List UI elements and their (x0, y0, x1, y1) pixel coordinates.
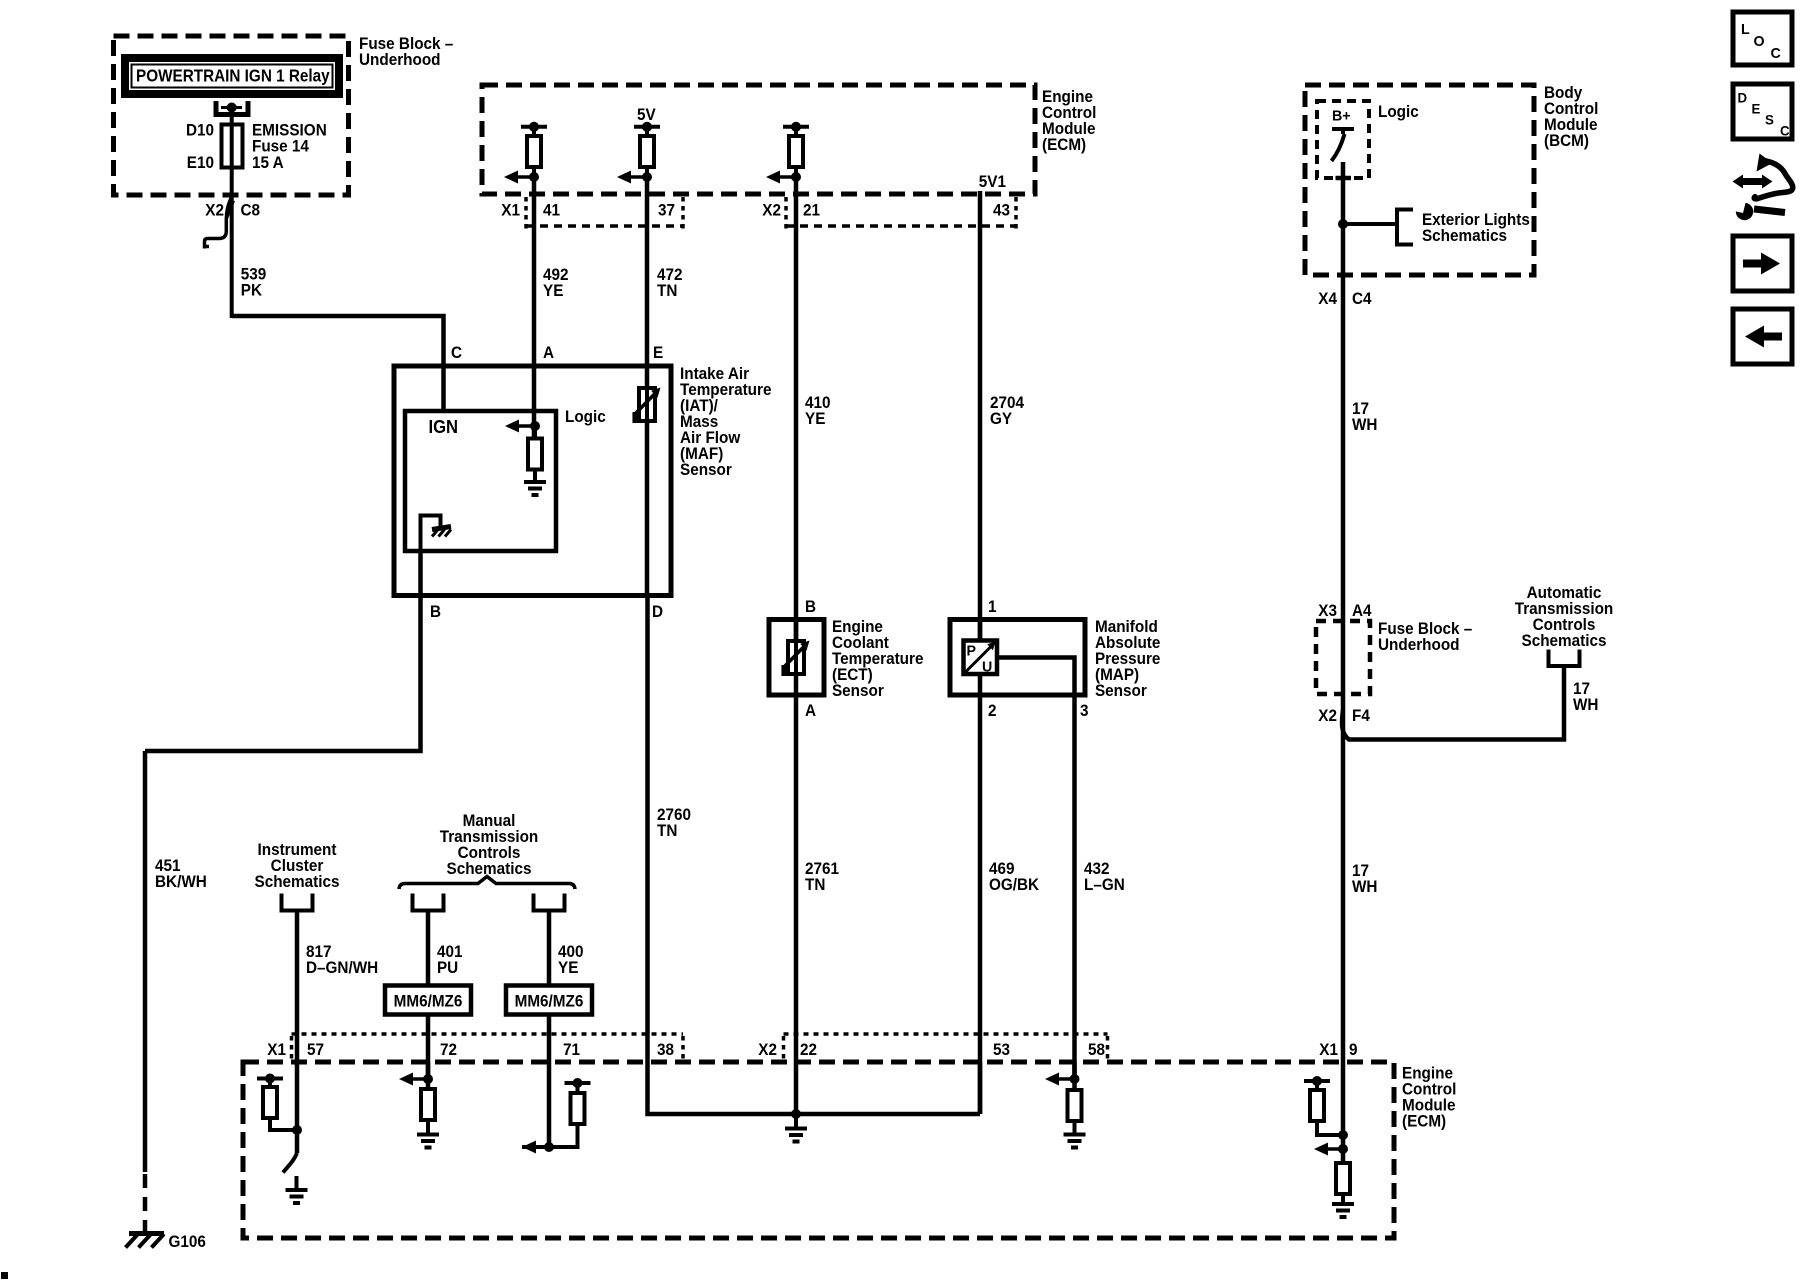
svg-text:X2: X2 (758, 1040, 777, 1059)
wire 401 PU to MM6 box (426, 911, 431, 987)
icon forward arrow box (1733, 236, 1792, 291)
svg-text:YE: YE (805, 409, 826, 428)
svg-text:P: P (967, 643, 977, 659)
svg-text:Sensor: Sensor (832, 681, 884, 700)
ground at pin 57 (286, 1176, 308, 1203)
svg-text:A: A (543, 343, 554, 362)
brace manual transmission (399, 877, 575, 890)
label 492 YE (543, 265, 569, 300)
wire 451 BK WH down to G106 (143, 751, 148, 1172)
ground inside logic box (524, 469, 546, 495)
svg-text:TN: TN (805, 875, 825, 894)
ECM bottom connector X1 group (267, 1034, 683, 1060)
wire through MAP (978, 619, 983, 695)
svg-text:43: 43 (993, 201, 1010, 220)
bracket 401 (413, 894, 444, 911)
svg-text:57: 57 (307, 1040, 324, 1059)
svg-text:Schematics: Schematics (255, 872, 340, 891)
svg-text:C4: C4 (1352, 289, 1372, 308)
svg-text:38: 38 (657, 1040, 674, 1059)
svg-text:MM6/MZ6: MM6/MZ6 (394, 992, 463, 1011)
label Fuse Block - Underhood (359, 34, 453, 69)
svg-text:POWERTRAIN IGN 1 Relay: POWERTRAIN IGN 1 Relay (136, 65, 330, 85)
automatic transmission bracket (1549, 650, 1580, 667)
relay label box POWERTRAIN IGN 1 Relay (121, 54, 343, 98)
svg-text:37: 37 (658, 201, 675, 220)
svg-text:15 A: 15 A (252, 153, 284, 172)
pin 58 resistor to ground (1064, 1090, 1086, 1148)
bracket 400 (534, 894, 565, 911)
label 400 YE (558, 942, 584, 977)
ground at pin 22 bus (785, 1114, 807, 1142)
svg-text:X1: X1 (267, 1040, 286, 1059)
wire through right fuse block (1341, 621, 1346, 694)
svg-text:Sensor: Sensor (680, 460, 732, 479)
svg-text:X2: X2 (1318, 706, 1337, 725)
terminal hook at C8 (205, 197, 232, 249)
svg-text:O: O (1754, 34, 1765, 50)
label 2761 TN (805, 859, 839, 894)
svg-text:Logic: Logic (565, 407, 606, 426)
pin 57 switch to ground (283, 1153, 297, 1173)
wire 2761 TN ECT pin A to ECM pin 22 (794, 695, 799, 1114)
wire 2760 TN MAF pin D to ECM pin 38 (645, 595, 650, 1062)
svg-text:22: 22 (800, 1040, 817, 1059)
svg-text:B+: B+ (1332, 108, 1351, 124)
svg-text:72: 72 (440, 1040, 457, 1059)
svg-text:5V1: 5V1 (979, 172, 1006, 191)
svg-text:WH: WH (1573, 695, 1598, 714)
svg-text:BK/WH: BK/WH (155, 872, 207, 891)
svg-text:X4: X4 (1318, 289, 1337, 308)
svg-text:53: 53 (993, 1040, 1010, 1059)
svg-text:E: E (1751, 101, 1760, 116)
page arrow at pin 21 (766, 171, 801, 184)
svg-text:5V: 5V (637, 105, 656, 124)
svg-text:S: S (1765, 112, 1774, 127)
label Exterior Lights Schematics (1422, 210, 1530, 245)
wire 492 YE pin41 to MAF pin A (532, 177, 537, 440)
label 17 WH branch (1573, 679, 1598, 714)
ECM top connector X2 group (762, 197, 1016, 229)
label 401 PU (437, 942, 463, 977)
fuse F14 EMISSION 15A (186, 121, 327, 172)
wire 410 YE pin21 to ECT pin B (794, 177, 799, 642)
icon tools arrows (1733, 154, 1793, 221)
connector X2 C8 labels (205, 201, 260, 220)
svg-text:C8: C8 (240, 201, 260, 220)
instrument cluster bracket (282, 894, 313, 911)
svg-text:D: D (652, 602, 663, 621)
svg-text:L–GN: L–GN (1084, 875, 1125, 894)
wire 400 YE to MM6 box (547, 911, 552, 987)
svg-text:Logic: Logic (1378, 102, 1419, 121)
svg-text:C: C (1770, 46, 1781, 62)
wire MAP internal to pin 3 (997, 658, 1075, 696)
svg-text:A4: A4 (1352, 601, 1372, 620)
page arrow at pin 41 (504, 171, 539, 184)
svg-text:B: B (805, 597, 816, 616)
pin 9 wire junction (1338, 1062, 1348, 1163)
wire 400 YE MM6 to ECM pin 71 (547, 1015, 552, 1148)
svg-text:Schematics: Schematics (447, 859, 532, 878)
MM6 MZ6 box 2 (506, 986, 592, 1015)
svg-text:B: B (430, 602, 441, 621)
svg-text:D: D (1738, 90, 1748, 105)
label 2704 GY (990, 393, 1024, 428)
svg-text:1: 1 (988, 597, 997, 616)
wire 53 down to bus (978, 1062, 983, 1114)
icon back arrow box (1733, 309, 1792, 364)
pressure transducer P U symbol (964, 641, 998, 676)
ECT sensor box (769, 620, 824, 696)
pin 57 circuit pullup resistor (257, 1074, 297, 1131)
svg-text:A: A (805, 701, 816, 720)
svg-text:Underhood: Underhood (1378, 635, 1460, 654)
MM6 MZ6 box 1 (385, 986, 471, 1015)
label 410 YE (805, 393, 831, 428)
ECM internal pullup resistor pin 21 (783, 122, 809, 177)
svg-text:Schematics: Schematics (1422, 226, 1507, 245)
page arrow at pin 37 (617, 171, 652, 184)
svg-text:9: 9 (1349, 1040, 1358, 1059)
wire 401 PU MM6 to ECM pin 72 (426, 1015, 431, 1080)
svg-text:(ECM): (ECM) (1042, 135, 1086, 154)
wire 17 WH down to ECM pin 9 (1341, 694, 1346, 1062)
pin 72 resistor to ground (417, 1089, 439, 1148)
fuse holder bracket (216, 101, 248, 117)
thermistor ECT element (784, 619, 810, 695)
thermistor IAT element on wire E (635, 387, 661, 595)
ground G106 (126, 1232, 206, 1251)
svg-text:F4: F4 (1352, 706, 1370, 725)
pin 72 arrow (399, 1062, 433, 1089)
junction dot at pin 22 ground bus (791, 1109, 801, 1119)
wire 2704 GY 5V1 to MAP pin 1 (978, 191, 983, 642)
svg-text:WH: WH (1352, 877, 1377, 896)
svg-text:TN: TN (657, 821, 677, 840)
chassis ground hook inside IGN box (421, 516, 452, 552)
label 472 TN (657, 265, 683, 300)
branch curve to automatic transmission (1342, 666, 1564, 740)
label 17 WH upper (1352, 399, 1377, 434)
ECM internal pullup resistor pin 41 (521, 122, 547, 177)
ECM top connector X1 group (501, 197, 683, 229)
svg-text:2: 2 (988, 701, 997, 720)
label 2760 TN (657, 805, 691, 840)
label 817 D-GN/WH (306, 942, 378, 977)
svg-text:PK: PK (241, 281, 263, 300)
icon DESC box (1733, 84, 1792, 139)
svg-text:WH: WH (1352, 415, 1377, 434)
svg-text:X1: X1 (501, 201, 520, 220)
wire from relay through fuse (230, 114, 234, 318)
engine control module ECM dashed box top (482, 85, 1035, 194)
label 469 OG/BK (989, 859, 1039, 894)
MAP sensor box (950, 620, 1085, 696)
dashed wire segment to G106 (143, 1174, 148, 1233)
B+ inner dashed box (1317, 101, 1369, 178)
B+ switch contact (1332, 129, 1355, 178)
pin 71 arrow and junction (522, 1141, 554, 1154)
page period mark (1, 1272, 8, 1279)
svg-text:D10: D10 (186, 121, 214, 140)
pin 71 pullup resistor (549, 1078, 591, 1147)
label 17 WH lower (1352, 861, 1377, 896)
svg-text:3: 3 (1080, 701, 1089, 720)
label Fuse Block - Underhood right (1378, 619, 1472, 654)
ECM bottom connector X2 group (758, 1034, 1107, 1060)
svg-text:GY: GY (990, 409, 1012, 428)
svg-text:IGN: IGN (428, 416, 458, 437)
svg-text:C: C (451, 343, 462, 362)
svg-text:G106: G106 (168, 1232, 205, 1251)
wire 17 WH BCM to fuse block X3 A4 (1341, 275, 1346, 621)
IAT MAF sensor outer box (394, 366, 671, 596)
junction to exterior lights (1338, 219, 1348, 229)
label 451 BK/WH (155, 856, 207, 891)
IGN logic inner box (405, 411, 556, 551)
wire to exterior lights bracket (1343, 222, 1397, 226)
connector X3 A4 labels (1318, 601, 1371, 620)
svg-text:58: 58 (1088, 1040, 1105, 1059)
svg-text:E: E (653, 343, 663, 362)
pin 9 pullup resistor (1304, 1076, 1343, 1135)
wire 469 OG BK MAP pin2 to ECM pin 53 (978, 695, 983, 1114)
pin 9 resistor to ground (1332, 1163, 1354, 1217)
svg-text:(ECM): (ECM) (1402, 1112, 1446, 1131)
svg-text:TN: TN (657, 281, 677, 300)
ECM internal pullup resistor pin 37 (5V) (634, 122, 660, 177)
svg-text:41: 41 (543, 201, 560, 220)
exterior lights schematic bracket (1397, 210, 1413, 245)
svg-text:OG/BK: OG/BK (989, 875, 1039, 894)
wire 38 to internal ground bus (648, 1062, 981, 1114)
svg-text:(BCM): (BCM) (1544, 131, 1589, 150)
logic pulldown resistor on A (528, 426, 542, 470)
svg-text:Schematics: Schematics (1522, 631, 1607, 650)
fuse block underhood right dashed box (1316, 621, 1370, 694)
svg-text:X3: X3 (1318, 601, 1337, 620)
pin 9 arrow (1314, 1143, 1348, 1156)
svg-text:PU: PU (437, 958, 458, 977)
svg-text:X1: X1 (1319, 1040, 1338, 1059)
svg-text:U: U (982, 659, 992, 675)
svg-text:X2: X2 (762, 201, 781, 220)
svg-text:C: C (1780, 123, 1790, 138)
wire 817 to ECM pin 57 (295, 911, 300, 1063)
body control module BCM dashed box (1305, 85, 1534, 275)
svg-text:71: 71 (563, 1040, 580, 1059)
svg-text:YE: YE (558, 958, 579, 977)
wire 432 L-GN MAP pin3 to ECM pin 58 (1072, 695, 1077, 1079)
svg-text:YE: YE (543, 281, 564, 300)
ECM bottom connector X1 9 labels (1319, 1040, 1357, 1059)
pin 58 arrow (1045, 1062, 1080, 1090)
label 432 L-GN (1084, 859, 1125, 894)
wire from IGN pin B down and left to 451 (145, 551, 421, 751)
svg-text:L: L (1741, 22, 1750, 38)
wire 539 PK from fuse to IGN box pin C (232, 316, 444, 411)
svg-text:E10: E10 (187, 153, 214, 172)
wire 472 TN pin37 to MAF pin E (645, 177, 650, 387)
fuse block underhood dashed box (114, 36, 349, 195)
icon LOC box (1733, 12, 1792, 65)
svg-text:MM6/MZ6: MM6/MZ6 (515, 992, 584, 1011)
connector X2 F4 labels (1318, 706, 1370, 725)
wire from B+ switch down through BCM (1341, 162, 1346, 275)
engine control module ECM dashed box bottom (243, 1062, 1394, 1238)
wire 539 PK label (241, 265, 267, 300)
connector X4 C4 labels (1318, 289, 1371, 308)
pin 57 wire and junction (292, 1062, 302, 1153)
svg-text:X2: X2 (205, 201, 224, 220)
svg-text:21: 21 (803, 201, 820, 220)
arrow at logic node A (505, 420, 540, 433)
svg-text:Sensor: Sensor (1095, 681, 1147, 700)
svg-text:Underhood: Underhood (359, 50, 441, 69)
svg-text:D–GN/WH: D–GN/WH (306, 958, 378, 977)
